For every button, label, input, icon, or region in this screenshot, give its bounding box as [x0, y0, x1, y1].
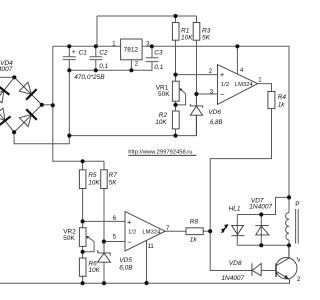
svg-text:1/2: 1/2 — [221, 82, 229, 88]
svg-text:VT1: VT1 — [297, 256, 300, 263]
svg-text:+: + — [127, 218, 132, 227]
svg-text:50K: 50K — [158, 91, 170, 98]
svg-text:+: + — [220, 70, 225, 79]
svg-text:http://www.299792458.ru: http://www.299792458.ru — [128, 150, 192, 156]
svg-text:R2: R2 — [159, 112, 168, 119]
svg-text:R8: R8 — [190, 219, 199, 226]
svg-text:5K: 5K — [202, 35, 211, 42]
svg-text:10K: 10K — [88, 267, 100, 274]
svg-text:1k: 1k — [190, 237, 198, 244]
svg-text:0,1: 0,1 — [154, 64, 163, 71]
svg-text:10K: 10K — [155, 119, 167, 126]
svg-text:C1: C1 — [79, 49, 88, 56]
svg-text:LM324: LM324 — [235, 82, 254, 88]
svg-text:6,8B: 6,8B — [210, 120, 222, 126]
svg-text:R7: R7 — [109, 172, 118, 179]
svg-text:C2: C2 — [99, 49, 108, 56]
svg-text:5K: 5K — [109, 179, 118, 186]
svg-text:+: + — [72, 49, 76, 56]
svg-text:7812: 7812 — [124, 46, 139, 53]
svg-text:1N4007: 1N4007 — [249, 204, 272, 211]
svg-text:11: 11 — [148, 244, 155, 250]
svg-text:−: − — [220, 90, 225, 99]
svg-text:1/2: 1/2 — [128, 229, 136, 235]
svg-text:P1: P1 — [295, 201, 300, 208]
svg-text:0,1: 0,1 — [99, 63, 108, 70]
svg-text:−: − — [127, 238, 132, 247]
svg-text:1N4007: 1N4007 — [0, 66, 13, 73]
svg-text:6,0B: 6,0B — [119, 265, 133, 272]
svg-text:1N4007: 1N4007 — [221, 275, 244, 282]
svg-text:1k: 1k — [278, 101, 286, 108]
svg-text:C3: C3 — [154, 49, 163, 56]
svg-text:VD8: VD8 — [229, 260, 242, 267]
svg-text:10K: 10K — [181, 35, 193, 42]
svg-text:10K: 10K — [88, 179, 100, 186]
svg-text:VD5: VD5 — [119, 257, 132, 264]
svg-text:VD6: VD6 — [208, 109, 221, 116]
svg-text:HL1: HL1 — [229, 205, 241, 212]
svg-text:R4: R4 — [278, 94, 287, 101]
svg-text:470,0*25B: 470,0*25B — [74, 74, 105, 81]
svg-text:R3: R3 — [202, 27, 211, 34]
svg-text:50K: 50K — [63, 235, 75, 242]
svg-text:R5: R5 — [88, 172, 97, 179]
svg-text:2N: 2N — [297, 276, 300, 283]
svg-text:LM324: LM324 — [142, 229, 161, 235]
svg-text:R1: R1 — [181, 27, 190, 34]
